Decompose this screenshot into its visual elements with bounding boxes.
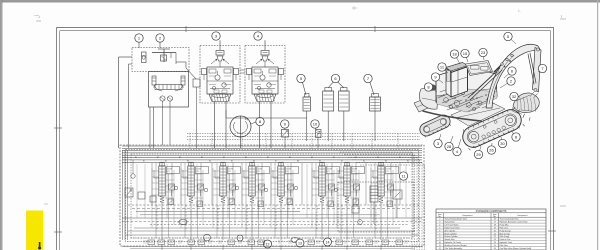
svg-text:Pump (Long): Pump (Long) — [500, 230, 511, 232]
svg-text:Left Travel Valve: Left Travel Valve — [445, 223, 459, 226]
svg-text:10: 10 — [313, 121, 318, 126]
svg-text:A6: A6 — [245, 156, 247, 159]
svg-text:Hydraulic Tank: Hydraulic Tank — [500, 241, 512, 244]
svg-text:Right Travel Valve: Right Travel Valve — [445, 226, 460, 229]
svg-text:3: 3 — [439, 221, 440, 223]
svg-text:B7: B7 — [275, 160, 277, 162]
svg-text:22: 22 — [494, 236, 496, 238]
svg-text:Drain or Line: Drain or Line — [500, 238, 511, 241]
svg-text:B4: B4 — [407, 160, 409, 162]
svg-text:A5: A5 — [223, 156, 225, 159]
svg-text:24: 24 — [494, 242, 496, 244]
svg-text:5: 5 — [439, 227, 440, 229]
svg-text:29: 29 — [476, 152, 481, 157]
svg-text:A3: A3 — [377, 156, 379, 159]
svg-text:A4: A4 — [399, 156, 401, 159]
svg-text:A2: A2 — [157, 156, 159, 159]
svg-text:1.: 1. — [518, 9, 521, 13]
svg-text:B3: B3 — [385, 160, 387, 162]
svg-text:18: 18 — [452, 51, 457, 56]
svg-text:21: 21 — [494, 233, 496, 235]
svg-text:A4: A4 — [201, 156, 203, 159]
svg-text:B1: B1 — [341, 160, 343, 162]
svg-text:26: 26 — [489, 147, 494, 152]
svg-text:23: 23 — [494, 239, 496, 241]
svg-text:B2: B2 — [363, 160, 365, 162]
svg-text:20: 20 — [494, 230, 496, 232]
svg-text:23: 23 — [481, 50, 486, 55]
svg-text:Swing Parking Brake Valve: Swing Parking Brake Valve — [445, 218, 468, 221]
svg-text:6: 6 — [439, 230, 440, 232]
svg-text:Component: Component — [517, 214, 528, 217]
svg-text:19: 19 — [494, 227, 496, 229]
svg-text:A7: A7 — [267, 156, 269, 159]
svg-text:17: 17 — [494, 221, 496, 223]
svg-text:B5: B5 — [231, 160, 233, 162]
svg-text:10: 10 — [439, 242, 441, 244]
svg-text:A2: A2 — [355, 156, 357, 159]
svg-text:16: 16 — [494, 219, 496, 221]
svg-text:15: 15 — [463, 51, 468, 56]
svg-text:A1: A1 — [135, 156, 137, 159]
svg-text:A8: A8 — [289, 156, 291, 159]
svg-text:30: 30 — [500, 141, 505, 146]
svg-text:A3: A3 — [179, 156, 181, 159]
svg-text:Pilot Lines: Pilot Lines — [500, 226, 509, 229]
svg-text:XXXX: XXXX — [352, 169, 358, 171]
svg-text:Component: Component — [462, 214, 473, 217]
svg-text:A9: A9 — [311, 156, 313, 159]
svg-text:Bucket Cylinder: Bucket Cylinder — [445, 235, 459, 238]
svg-text:B8: B8 — [297, 160, 299, 162]
svg-text:14: 14 — [326, 240, 330, 244]
svg-text:B1: B1 — [143, 160, 145, 162]
svg-text:Auxiliary Pressure (Single): Auxiliary Pressure (Single) — [445, 244, 468, 247]
svg-text:B4: B4 — [209, 160, 211, 162]
svg-text:32: 32 — [512, 94, 517, 99]
svg-text:9: 9 — [439, 239, 440, 241]
svg-text:Travel (2-Speed) Valve: Travel (2-Speed) Valve — [500, 218, 519, 221]
svg-text:8: 8 — [439, 236, 440, 238]
svg-text:Main (Long): Main (Long) — [500, 233, 510, 235]
svg-text:Boom Cylinder: Boom Cylinder — [445, 232, 458, 235]
svg-text:28: 28 — [447, 144, 452, 149]
svg-text:7: 7 — [439, 233, 440, 235]
svg-text:25: 25 — [494, 245, 496, 247]
svg-text:Swing Valve: Swing Valve — [445, 221, 455, 223]
svg-text:4: 4 — [439, 224, 440, 226]
svg-text:Arm Cylinder: Arm Cylinder — [445, 229, 456, 232]
svg-text:13: 13 — [298, 241, 302, 245]
svg-text:Swivel Joint: Swivel Joint — [445, 238, 455, 241]
svg-text:A1: A1 — [333, 156, 335, 159]
svg-text:STANDARD COMPONENTS: STANDARD COMPONENTS — [476, 210, 507, 213]
svg-text:Pilot (Long): Pilot (Long) — [500, 235, 510, 238]
svg-text:Pilot Filter: Pilot Filter — [500, 244, 509, 247]
svg-text:18: 18 — [494, 224, 496, 226]
svg-text:2: 2 — [439, 219, 440, 221]
svg-text:12: 12 — [266, 242, 270, 246]
svg-text:11: 11 — [439, 245, 441, 247]
svg-text:Hydraulic Activation Control V: Hydraulic Activation Control Valve — [500, 220, 528, 223]
svg-text:Pump Max: Pump Max — [500, 224, 509, 226]
svg-text:Hydraulic Oil Cooler: Hydraulic Oil Cooler — [445, 241, 462, 244]
svg-text:B2: B2 — [165, 160, 167, 162]
